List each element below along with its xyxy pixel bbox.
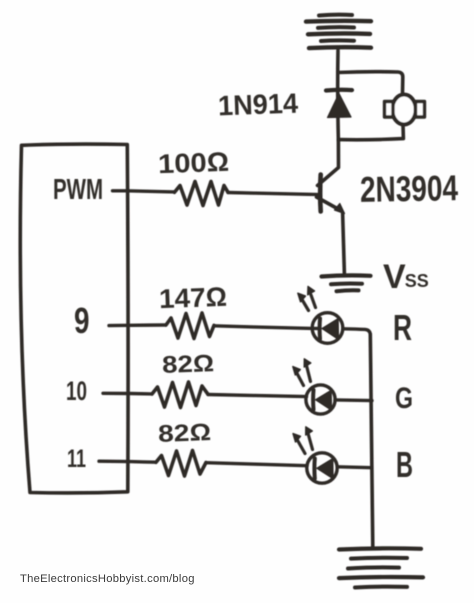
wire: R1 to transistor base bbox=[228, 193, 320, 195]
svg-text:82Ω: 82Ω bbox=[162, 350, 215, 379]
diode D1 1N914 cathode bar bbox=[326, 88, 352, 93]
wire: motor branch top bbox=[338, 72, 403, 94]
resistor R2 147ohm zigzag bbox=[166, 313, 214, 339]
svg-text:G: G bbox=[395, 382, 413, 415]
wire: pin 11 to resistor R4 bbox=[99, 461, 156, 462]
motor M1 bbox=[385, 95, 425, 125]
svg-text:VSS: VSS bbox=[383, 258, 429, 296]
diode D1 1N914 triangle bbox=[328, 94, 352, 118]
LED blue bbox=[293, 427, 337, 483]
svg-text:R: R bbox=[393, 307, 412, 348]
svg-text:2N3904: 2N3904 bbox=[360, 167, 459, 210]
ground bottom symbol bbox=[339, 548, 423, 587]
resistor R1 100ohm zigzag bbox=[175, 182, 229, 206]
resistor R3 82ohm zigzag bbox=[152, 382, 208, 408]
svg-text:9: 9 bbox=[74, 300, 90, 341]
watermark TheElectronicsHobbyist.com/blog bbox=[20, 573, 195, 585]
svg-text:147Ω: 147Ω bbox=[159, 282, 228, 314]
wire: R4 to LED blue bbox=[206, 463, 307, 466]
LED red bbox=[298, 287, 343, 344]
microcontroller box bbox=[20, 144, 128, 493]
transistor Q1 2N3904 bbox=[317, 141, 345, 275]
svg-text:10: 10 bbox=[66, 376, 87, 406]
svg-text:82Ω: 82Ω bbox=[158, 419, 212, 448]
svg-text:100Ω: 100Ω bbox=[158, 147, 230, 179]
LED green bbox=[293, 359, 335, 414]
power rail Vdd battery symbol bbox=[306, 15, 371, 49]
resistor R4 82ohm zigzag bbox=[156, 451, 206, 477]
svg-text:11: 11 bbox=[67, 445, 86, 473]
wire: pin 9 to resistor R2 bbox=[109, 323, 166, 327]
wire: main vertical from power rail through diode to collector node bbox=[336, 51, 340, 141]
wire: R3 to LED green bbox=[208, 395, 307, 397]
ground Vss under transistor bbox=[322, 275, 371, 291]
wire: LED red to right rail corner bbox=[343, 329, 370, 335]
svg-text:PWM: PWM bbox=[53, 174, 103, 206]
wire: LED blue to right rail bbox=[338, 465, 372, 469]
wire: right rail vertical bbox=[370, 334, 373, 548]
wire: LED green to right rail bbox=[335, 398, 372, 402]
wire: R2 to LED red bbox=[214, 326, 320, 329]
svg-text:1N914: 1N914 bbox=[218, 88, 299, 122]
wire: pin 10 to resistor R3 bbox=[103, 392, 152, 396]
wire: PWM to resistor R1 bbox=[113, 191, 175, 192]
svg-text:B: B bbox=[396, 444, 413, 485]
wire: motor branch bottom bbox=[338, 125, 403, 140]
